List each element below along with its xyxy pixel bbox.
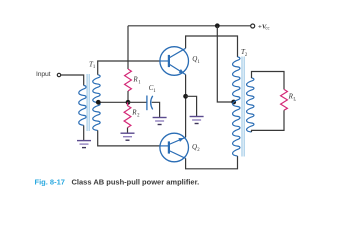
Vcc terminal [251,24,255,28]
wire Q2 collector to T2 primary bottom [186,156,238,169]
input terminal [57,73,60,76]
transformer T1 secondary winding [93,75,100,131]
wire Vcc rail [128,25,251,27]
transformer T2 primary winding [233,57,240,156]
wire T1 secondary bottom to Q2 base [98,130,161,146]
transistor Q2 [160,133,189,162]
node bias junction [126,100,131,105]
wire T1 secondary top to Q1 base [98,61,160,75]
transformer T1 core [86,74,88,131]
svg-text:Input: Input [36,71,51,78]
resistor R2 [124,102,131,127]
wire input to T1 primary top [61,75,84,86]
wire C1 to ground [152,102,160,117]
svg-text:cc: cc [265,27,269,32]
resistor R1 [125,69,132,91]
wire Q2 emitter up to junction [185,96,187,137]
wire rail down to T2 center tap [217,26,234,102]
transformer T2 secondary winding [247,78,254,132]
wire Vcc rail to R1 [127,26,129,69]
wire RL bottom to T2 secondary bottom [252,110,285,132]
node emitter junction [183,94,188,99]
wire R1 to bias node [127,91,129,102]
wire T1 center tap to bias node [98,101,128,103]
wire emitter junction to ground [186,96,197,116]
node Vcc rail to T2 tap [215,23,220,28]
node T2 center tap [231,100,236,105]
capacitor C1 [147,96,153,111]
wire T2 secondary top to RL [252,72,285,90]
ground (T1 primary) [77,141,91,148]
wire T1 primary bottom to ground [83,125,85,140]
svg-text:Fig. 8-17: Fig. 8-17 [35,177,65,186]
wire R2 to ground [127,128,129,133]
transformer T1 primary winding [79,86,86,126]
node T1 center tap [96,100,101,105]
transformer T2 core [241,57,243,157]
resistor RL [281,89,288,110]
ground (emitters) [190,117,204,124]
wire bias node to C1 [128,101,147,103]
ground (R2) [121,133,135,140]
ground (C1) [153,118,167,125]
wire Q1 emitter down to junction [185,75,187,97]
svg-text:L: L [293,97,296,102]
transistor Q1 [160,47,189,76]
svg-text:Class AB push-pull power ampli: Class AB push-pull power amplifier. [72,177,200,186]
wire Q1 collector to T2 primary top [186,36,238,57]
